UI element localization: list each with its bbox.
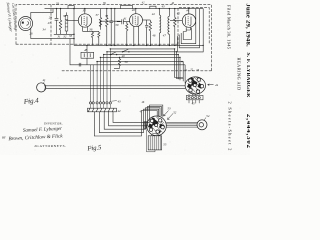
receiver unit dashed box: [178, 8, 209, 45]
transformer secondary L2: [168, 9, 170, 46]
vacuum tube V2: [130, 9, 143, 27]
resistor R37: [98, 31, 100, 45]
wire: V1 filament leads: [83, 27, 99, 32]
wire: screen feed: [114, 9, 116, 46]
microphone M1: [19, 17, 33, 31]
wire: mic output bottom: [31, 28, 74, 38]
wire: comb drops to connector strip: [91, 49, 111, 102]
right margin header text (rotated): [226, 4, 253, 152]
rail hump 3: [150, 6, 156, 8]
switch SW1: [110, 52, 118, 55]
leader to earphone button: [204, 118, 206, 121]
arrow at plug: [164, 111, 169, 117]
resistor R30: [59, 9, 61, 35]
socket pin bar: [186, 94, 203, 100]
wire: V3 cathode leads: [183, 27, 190, 31]
resistor R45: [149, 20, 151, 45]
capacitor C28: [55, 9, 59, 35]
earphone cable: [166, 122, 198, 127]
figure captions: [22, 96, 102, 152]
wire: right edge drop: [202, 9, 204, 46]
cord wires nested: [94, 111, 157, 137]
wire: bus B7: [70, 39, 185, 84]
resistor R49: [114, 57, 121, 68]
wire: bus B1: [74, 44, 203, 46]
mic unit dashed right edge: [50, 5, 52, 45]
resistor R36: [91, 31, 93, 45]
resistor R43 grid leak: [126, 22, 128, 46]
switch SW2: [122, 49, 130, 52]
component number labels: [30, 1, 219, 146]
case bottom dashed edge: [16, 43, 178, 45]
wire: V2 filament leads: [134, 26, 139, 45]
wire: bus B2: [110, 49, 183, 78]
hearing aid case outline (dashed): [16, 5, 212, 71]
junction dots: [56, 8, 204, 62]
wire: earphone cord to socket: [46, 86, 186, 89]
battery block BB: [148, 136, 161, 150]
resistor R39: [106, 9, 108, 46]
wire: socket pin stubs: [189, 100, 199, 104]
signature block: [2, 121, 67, 148]
plug P2 (Fig.5): [147, 116, 167, 136]
rail hump 2: [121, 5, 133, 8]
plug cord entry tab: [144, 122, 147, 129]
vacuum tube V1: [78, 9, 91, 28]
wire: bias network bottom: [54, 33, 74, 35]
arrow at plug 2: [168, 114, 174, 120]
wire: bus B6: [97, 62, 183, 82]
transformer primary L1: [159, 9, 161, 46]
wire: grid lead tube V1: [66, 19, 78, 21]
rail hump 1: [68, 6, 74, 9]
wire: plug to battery: [147, 130, 159, 152]
wire: bus B5: [100, 57, 180, 80]
resistor R47: [174, 9, 176, 46]
earphone button E2: [197, 120, 207, 130]
wire: V2 plate to R45: [142, 19, 150, 21]
scan speckle: [5, 30, 241, 151]
connector strip bar: [88, 104, 117, 111]
capacitor C small: [79, 63, 81, 67]
wire: bus B3: [107, 52, 184, 79]
lower case dashed edge: [62, 70, 212, 72]
leader lines for labels: [43, 82, 117, 111]
wire: mic output top: [31, 9, 53, 19]
vacuum tube V3: [182, 9, 195, 28]
top-left rotated annotation: [6, 2, 18, 32]
capacitor C44: [145, 20, 148, 45]
battery B: [81, 45, 94, 64]
capacitor C41 coupling: [117, 19, 130, 24]
socket P1: [185, 77, 205, 94]
receiver coil nested loops: [177, 9, 203, 52]
wire: coupling to V2: [101, 20, 121, 22]
capacitor C39: [110, 9, 113, 46]
wire: left shunt vertical: [73, 9, 75, 46]
connector strip terminals: [89, 102, 111, 104]
wire: top supply rail: [45, 8, 204, 10]
coil L31: [65, 12, 68, 34]
resistor R38 plate load: [99, 9, 101, 30]
earphone E (Fig.4): [37, 83, 46, 92]
wire: grid lead tube V3: [170, 20, 182, 22]
arrow to socket: [208, 84, 214, 86]
wire: bus B4: [104, 55, 179, 80]
